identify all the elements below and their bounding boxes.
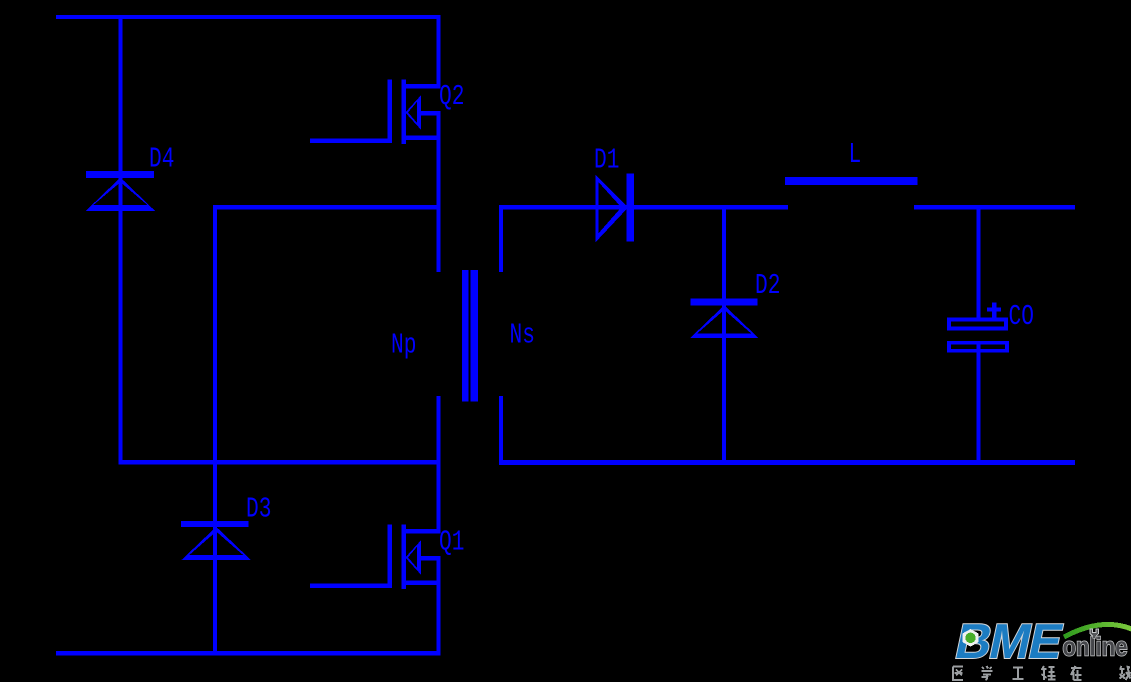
logo swoosh	[1064, 624, 1131, 637]
svg-text:D2: D2	[755, 269, 780, 302]
wire C0 bottom lead	[976, 341, 980, 465]
transistor Q1	[310, 525, 441, 590]
wire D3 vertical leg	[213, 205, 217, 655]
capacitor C0	[947, 318, 1009, 353]
wire secondary top right segment	[914, 205, 1075, 209]
logo Chinese char gong	[1013, 668, 1024, 680]
logo Chinese char zai	[1071, 666, 1082, 680]
wire primary mid horizontal (node between windings)	[213, 205, 441, 209]
wire primary bottom to Q1 drain	[437, 396, 441, 534]
svg-text:CO: CO	[1009, 300, 1034, 333]
wire Q2 source to primary top	[437, 111, 441, 272]
wire C0 top lead	[976, 205, 980, 317]
diode D3	[181, 521, 251, 560]
BME online logo	[951, 613, 1131, 680]
wire left lower rail	[118, 460, 440, 465]
svg-text:Ns: Ns	[510, 319, 535, 352]
wire bottom rail	[56, 651, 441, 655]
wire secondary top stub	[499, 205, 503, 272]
diode D2	[690, 299, 759, 339]
wire Q1 source to bottom rail	[437, 556, 441, 655]
wire secondary bottom rail	[499, 460, 1075, 465]
inductor L	[785, 177, 918, 185]
svg-text:L: L	[849, 138, 862, 171]
wire secondary top left segment	[499, 205, 788, 209]
wire left vertical bus (D4 leg)	[118, 15, 122, 465]
svg-text:Q1: Q1	[439, 526, 464, 559]
diode D4	[86, 171, 155, 211]
logo wrench prongs	[1090, 629, 1099, 638]
wire D2 vertical leg	[722, 205, 726, 465]
wire top rail	[56, 15, 441, 19]
logo Chinese char xue	[982, 666, 993, 680]
logo hexagon nut	[963, 629, 979, 647]
svg-text:D1: D1	[594, 144, 619, 177]
logo green ball	[965, 633, 975, 643]
transformer T1 core/windings	[462, 270, 478, 402]
svg-text:Q2: Q2	[439, 80, 464, 113]
wire Q2 drain vertical	[437, 15, 441, 89]
svg-text:D3: D3	[246, 493, 271, 526]
C0 polarity plus	[987, 302, 1001, 317]
logo Chinese char cheng	[1042, 666, 1056, 680]
diode D1	[595, 173, 634, 242]
svg-text:D4: D4	[149, 143, 174, 176]
transistor Q2	[310, 80, 441, 145]
logo Chinese char xian	[1120, 666, 1131, 680]
wire secondary bottom stub	[499, 396, 503, 465]
svg-text:Np: Np	[391, 329, 416, 362]
logo Chinese char yi	[953, 667, 963, 681]
